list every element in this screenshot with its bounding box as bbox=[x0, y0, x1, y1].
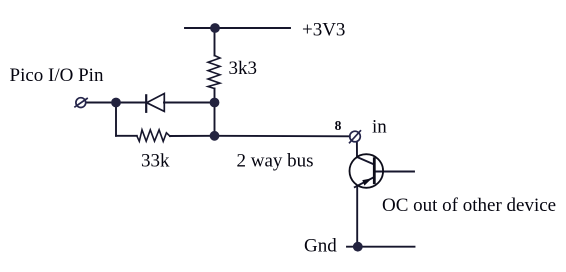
wire emitter down to ground rail bbox=[356, 187, 358, 247]
svg-text:Gnd: Gnd bbox=[304, 236, 337, 257]
resistor R1 3k3 zigzag bbox=[208, 56, 220, 89]
wire collector lead bbox=[374, 171, 414, 173]
transistor Q1 emitter arrow bbox=[362, 178, 372, 185]
diode D1 triangle bbox=[147, 94, 165, 112]
wire node A down bbox=[115, 103, 117, 136]
svg-text:33k: 33k bbox=[141, 151, 170, 172]
wire 3k3 top lead bbox=[214, 28, 216, 56]
svg-text:Pico I/O Pin: Pico I/O Pin bbox=[10, 65, 104, 86]
wire to 33k left lead bbox=[116, 135, 137, 137]
connector pin Pico I/O bbox=[74, 98, 88, 108]
wire connector to transistor base bbox=[357, 142, 374, 165]
svg-text:8: 8 bbox=[335, 118, 342, 133]
connector pin 8 in bbox=[349, 130, 361, 143]
wire diode anode to node B bbox=[164, 102, 215, 104]
wire top +3V3 rail bbox=[185, 27, 290, 29]
junction dot node B bbox=[210, 98, 220, 108]
wire 3k3 bottom lead bbox=[214, 89, 216, 103]
junction dot node A bbox=[111, 98, 121, 108]
transistor Q1 base bar bbox=[373, 157, 376, 184]
svg-text:+3V3: +3V3 bbox=[302, 20, 345, 41]
junction dot node C bbox=[210, 131, 220, 141]
transistor Q1 body circle bbox=[350, 154, 384, 188]
diode D1 cathode bar bbox=[145, 95, 147, 112]
wire 2 way bus bbox=[215, 135, 350, 138]
junction dot top rail bbox=[210, 23, 220, 33]
wire emitter diagonal bbox=[355, 177, 374, 187]
wire 33k right lead to node C bbox=[170, 135, 215, 137]
resistor R2 33k zigzag bbox=[137, 130, 170, 142]
svg-text:2 way bus: 2 way bus bbox=[237, 151, 314, 172]
svg-text:3k3: 3k3 bbox=[229, 58, 258, 79]
wire node A to diode cathode bbox=[116, 102, 146, 104]
wire pin to node A bbox=[86, 102, 116, 104]
wire ground rail bbox=[347, 246, 415, 248]
svg-text:OC out of other device: OC out of other device bbox=[382, 195, 556, 216]
junction dot ground bbox=[353, 242, 363, 252]
wire node B vertical bbox=[214, 103, 216, 136]
svg-text:in: in bbox=[372, 117, 387, 138]
